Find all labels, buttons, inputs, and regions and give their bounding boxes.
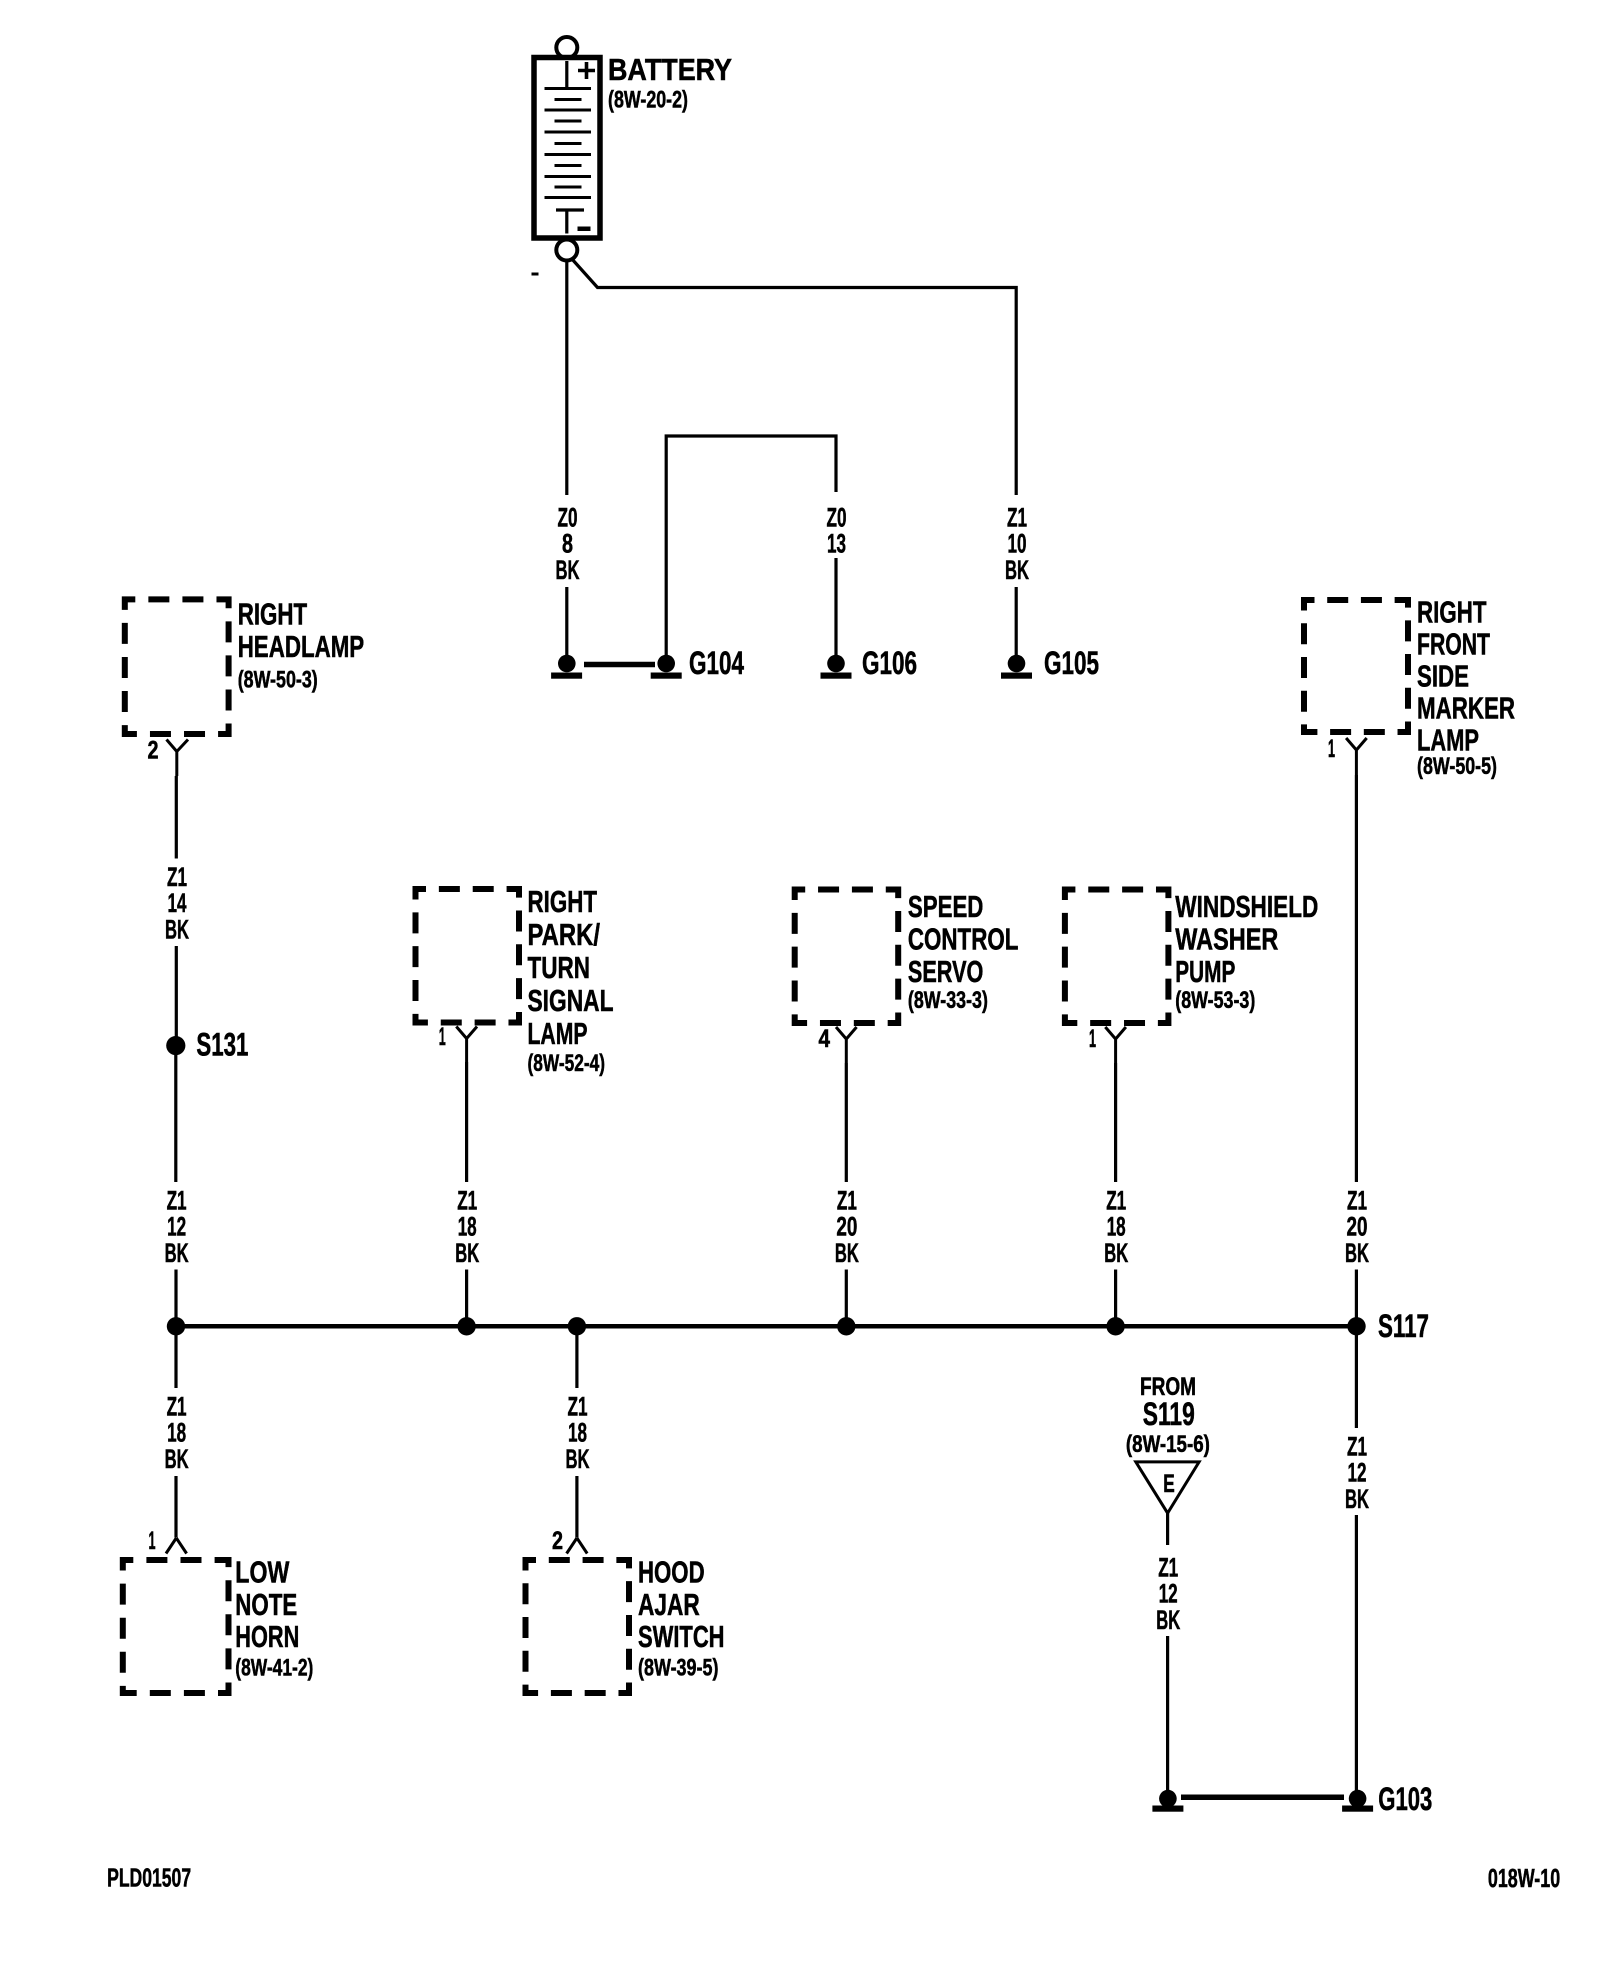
ground G103	[1342, 1781, 1432, 1817]
svg-text:HOOD: HOOD	[638, 1555, 705, 1590]
wire label Z1 18 BK	[1104, 1185, 1128, 1268]
ground G106	[821, 645, 918, 681]
wire label Z1 12 BK	[1345, 1431, 1369, 1514]
label WINDSHIELD WASHER PUMP (8W-53-3)	[1175, 889, 1318, 1014]
node junction at washer pump branch	[1106, 1317, 1124, 1335]
label RIGHT PARK/TURN SIGNAL LAMP (8W-52-4)	[528, 884, 614, 1077]
svg-text:SERVO: SERVO	[908, 954, 984, 989]
wire label Z1 18 BK	[165, 1391, 189, 1474]
svg-text:(8W-52-4): (8W-52-4)	[528, 1050, 606, 1077]
svg-text:BK: BK	[455, 1238, 479, 1268]
wire bus down to LOW NOTE HORN (Z1 18 BK)	[174, 1326, 177, 1537]
svg-text:WASHER: WASHER	[1175, 922, 1278, 957]
svg-text:018W-10: 018W-10	[1488, 1863, 1560, 1893]
splice S131	[166, 1027, 248, 1063]
node junction at headlamp branch	[167, 1317, 185, 1335]
wire label Z1 20 BK	[1345, 1185, 1369, 1268]
wire label Z0 8 BK	[556, 502, 580, 585]
svg-text:E: E	[1163, 1470, 1175, 1498]
ground G104	[651, 645, 744, 681]
pin 2 of RIGHT HEADLAMP	[148, 737, 189, 777]
svg-text:G105: G105	[1044, 645, 1099, 681]
svg-text:HEADLAMP: HEADLAMP	[238, 629, 364, 664]
wire linking battery ground to G104	[584, 662, 655, 668]
wire battery negative down to G104 ground (Z0 8 BK)	[565, 261, 568, 657]
wire label Z1 18 BK	[566, 1391, 590, 1474]
connector E from S119 (triangle)	[1136, 1462, 1199, 1513]
svg-text:BK: BK	[1156, 1605, 1180, 1635]
svg-text:RIGHT: RIGHT	[1417, 595, 1487, 630]
label HOOD AJAR SWITCH (8W-39-5)	[638, 1555, 725, 1682]
svg-text:SIGNAL: SIGNAL	[528, 983, 614, 1018]
footer page number 018W-10	[1488, 1863, 1560, 1893]
svg-text:LOW: LOW	[235, 1555, 290, 1590]
label SPEED CONTROL SERVO (8W-33-3)	[908, 889, 1019, 1014]
wire from RIGHT PARK/TURN pin 1 down to bus (Z1 18 BK)	[465, 1062, 468, 1326]
wire from SPEED CONTROL SERVO pin 4 down to bus (Z1 20 BK)	[845, 1063, 848, 1326]
pin 1 of RIGHT PARK/TURN SIGNAL LAMP	[439, 1023, 477, 1062]
svg-text:NOTE: NOTE	[235, 1587, 297, 1622]
svg-text:1: 1	[1089, 1025, 1096, 1053]
pin 1 of LOW NOTE HORN	[149, 1527, 187, 1555]
connector HOOD AJAR SWITCH (dashed box)	[526, 1560, 630, 1693]
svg-text:BK: BK	[165, 1238, 189, 1268]
svg-text:(8W-39-5): (8W-39-5)	[638, 1655, 719, 1682]
pin 4 of SPEED CONTROL SERVO	[819, 1025, 857, 1063]
svg-text:FRONT: FRONT	[1417, 627, 1490, 662]
svg-text:LAMP: LAMP	[528, 1016, 588, 1051]
label LOW NOTE HORN (8W-41-2)	[235, 1555, 313, 1682]
svg-text:BK: BK	[556, 555, 580, 585]
svg-text:2: 2	[552, 1527, 563, 1555]
wire label Z1 20 BK	[835, 1185, 859, 1268]
svg-text:WINDSHIELD: WINDSHIELD	[1175, 889, 1318, 924]
battery B1	[534, 37, 600, 261]
svg-text:BK: BK	[1005, 555, 1029, 585]
svg-text:1: 1	[149, 1527, 156, 1555]
ground G105	[1001, 645, 1099, 681]
svg-text:BK: BK	[165, 915, 189, 945]
wire bus down to HOOD AJAR SWITCH (Z1 18 BK)	[575, 1326, 578, 1537]
connector RIGHT PARK/TURN SIGNAL LAMP (dashed box)	[416, 889, 520, 1023]
svg-text:RIGHT: RIGHT	[238, 596, 308, 631]
label FROM S119 (8W-15-6)	[1126, 1373, 1210, 1458]
connector LOW NOTE HORN (dashed box)	[123, 1560, 229, 1693]
wire label Z1 12 BK	[165, 1185, 189, 1268]
svg-text:13: 13	[827, 529, 846, 559]
svg-text:AJAR: AJAR	[638, 1587, 700, 1622]
wire label Z0 13	[827, 502, 847, 558]
pin 1 of WINDSHIELD WASHER PUMP	[1089, 1025, 1126, 1063]
connector SPEED CONTROL SERVO (dashed box)	[795, 890, 899, 1024]
wire from WINDSHIELD WASHER PUMP pin 1 down to bus (Z1 18 BK)	[1114, 1063, 1117, 1326]
connector WINDSHIELD WASHER PUMP (dashed box)	[1065, 890, 1169, 1024]
svg-text:RIGHT: RIGHT	[528, 884, 598, 919]
wire label Z1 14 BK	[165, 862, 189, 945]
wire S117 down to G103 (Z1 12 BK)	[1355, 1326, 1358, 1795]
svg-text:S117: S117	[1378, 1308, 1429, 1344]
wire label Z1 10 BK	[1005, 502, 1029, 585]
node junction at hood ajar branch	[568, 1317, 586, 1335]
wire linking E-branch ground to G103	[1181, 1795, 1344, 1801]
ground (E branch)	[1152, 1790, 1183, 1812]
svg-text:BK: BK	[1345, 1238, 1369, 1268]
wire ground bus to splice S117	[176, 1324, 1357, 1329]
svg-text:MARKER: MARKER	[1417, 691, 1515, 726]
svg-text:(8W-20-2): (8W-20-2)	[608, 87, 688, 114]
svg-text:BATTERY: BATTERY	[608, 52, 732, 87]
svg-text:TURN: TURN	[528, 950, 591, 985]
wire label Z1 18 BK	[455, 1185, 479, 1268]
svg-text:PARK/: PARK/	[528, 917, 601, 952]
wire from RIGHT FRONT SIDE MARKER LAMP pin 1 down to bus (Z1 20 BK)	[1355, 775, 1358, 1326]
wire label Z1 12 BK	[1156, 1552, 1180, 1635]
ground (battery negative)	[551, 655, 582, 679]
footer sheet number PLD01507	[107, 1863, 191, 1893]
splice S117	[1347, 1308, 1429, 1344]
svg-text:(8W-53-3): (8W-53-3)	[1175, 987, 1255, 1014]
svg-text:G106: G106	[862, 645, 917, 681]
wire battery negative diagonal and across to G105 (Z1 10 BK)	[532, 259, 1017, 657]
svg-text:1: 1	[1328, 735, 1335, 763]
svg-text:CONTROL: CONTROL	[908, 922, 1019, 957]
connector RIGHT FRONT SIDE MARKER LAMP (dashed box)	[1304, 600, 1408, 732]
connector RIGHT HEADLAMP (dashed box)	[125, 599, 229, 734]
svg-text:PLD01507: PLD01507	[107, 1863, 191, 1893]
svg-text:BK: BK	[1345, 1484, 1369, 1514]
svg-text:(8W-50-3): (8W-50-3)	[238, 667, 318, 694]
label RIGHT HEADLAMP (8W-50-3)	[238, 596, 364, 693]
svg-text:PUMP: PUMP	[1175, 954, 1235, 989]
svg-text:BK: BK	[835, 1238, 859, 1268]
svg-text:BK: BK	[1104, 1238, 1128, 1268]
svg-text:(8W-15-6): (8W-15-6)	[1126, 1431, 1210, 1458]
svg-text:BK: BK	[566, 1444, 590, 1474]
svg-text:S131: S131	[196, 1027, 248, 1063]
svg-text:G103: G103	[1378, 1781, 1432, 1817]
svg-text:(8W-41-2): (8W-41-2)	[235, 1655, 313, 1682]
svg-text:(8W-50-5): (8W-50-5)	[1417, 753, 1497, 780]
wire G104 up over to G106 (Z0 13)	[666, 436, 836, 656]
pin 2 of HOOD AJAR SWITCH	[552, 1527, 587, 1555]
wire from S131 down to bus (Z1 12 BK)	[174, 1055, 177, 1326]
svg-text:BK: BK	[165, 1444, 189, 1474]
svg-text:4: 4	[819, 1025, 831, 1053]
svg-text:S119: S119	[1143, 1396, 1195, 1432]
svg-text:(8W-33-3): (8W-33-3)	[908, 987, 988, 1014]
svg-text:HORN: HORN	[235, 1619, 299, 1654]
svg-text:SPEED: SPEED	[908, 889, 984, 924]
wire from E triangle down to G103 (Z1 12 BK)	[1166, 1513, 1169, 1795]
svg-text:1: 1	[439, 1023, 446, 1051]
svg-text:2: 2	[148, 737, 159, 765]
label RIGHT FRONT SIDE MARKER LAMP (8W-50-5)	[1417, 595, 1515, 781]
svg-text:G104: G104	[689, 645, 744, 681]
pin 1 of RIGHT FRONT SIDE MARKER LAMP	[1328, 735, 1367, 775]
svg-text:SIDE: SIDE	[1417, 659, 1469, 694]
svg-text:SWITCH: SWITCH	[638, 1619, 725, 1654]
wire from RIGHT HEADLAMP pin 2 down (Z1 14 BK)	[175, 776, 178, 1037]
node junction at speed servo branch	[837, 1317, 855, 1335]
battery label BATTERY (8W-20-2)	[608, 52, 732, 114]
node junction at park/turn branch	[457, 1317, 475, 1335]
